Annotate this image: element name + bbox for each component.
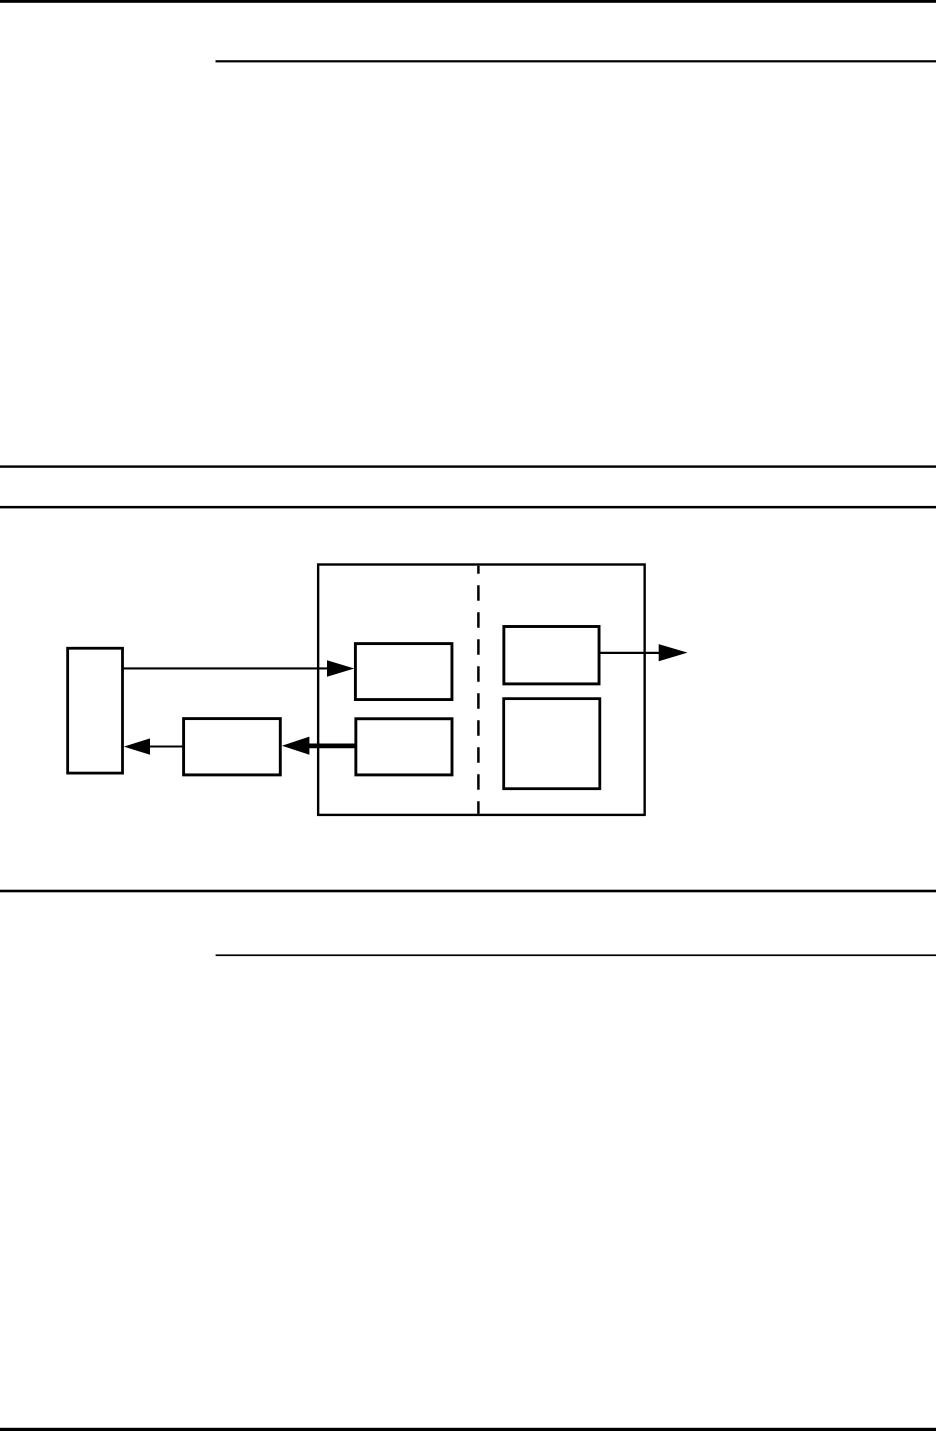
arrowhead right into upper-left inner box <box>327 660 354 676</box>
wire: middle box to tall box <box>149 745 184 747</box>
top page rule <box>0 0 936 3</box>
block: outer IC boundary box <box>318 565 645 815</box>
block: inner upper-right box <box>504 627 599 684</box>
full-width rule A <box>0 465 936 467</box>
block: inner upper-left box <box>355 644 452 700</box>
block: inner lower-right box <box>504 699 600 789</box>
block: middle lower box <box>184 719 281 775</box>
arrowhead left into tall box <box>124 738 150 754</box>
wire: tall box to upper-left inner box <box>123 667 329 669</box>
full-width rule B <box>0 506 936 509</box>
header section underline <box>216 60 936 62</box>
arrowhead left into middle box <box>282 737 310 755</box>
block: left tall box <box>68 648 123 773</box>
wire: thick line lower-left inner box to middle box <box>309 744 356 749</box>
block: inner lower-left box <box>356 719 452 775</box>
lower section underline <box>216 954 936 956</box>
dashed divider line <box>477 566 480 814</box>
arrowhead right at output <box>659 644 688 661</box>
wire: upper-right inner box to output <box>599 652 660 654</box>
full-width rule C <box>0 890 936 893</box>
bottom page rule <box>0 1428 936 1431</box>
